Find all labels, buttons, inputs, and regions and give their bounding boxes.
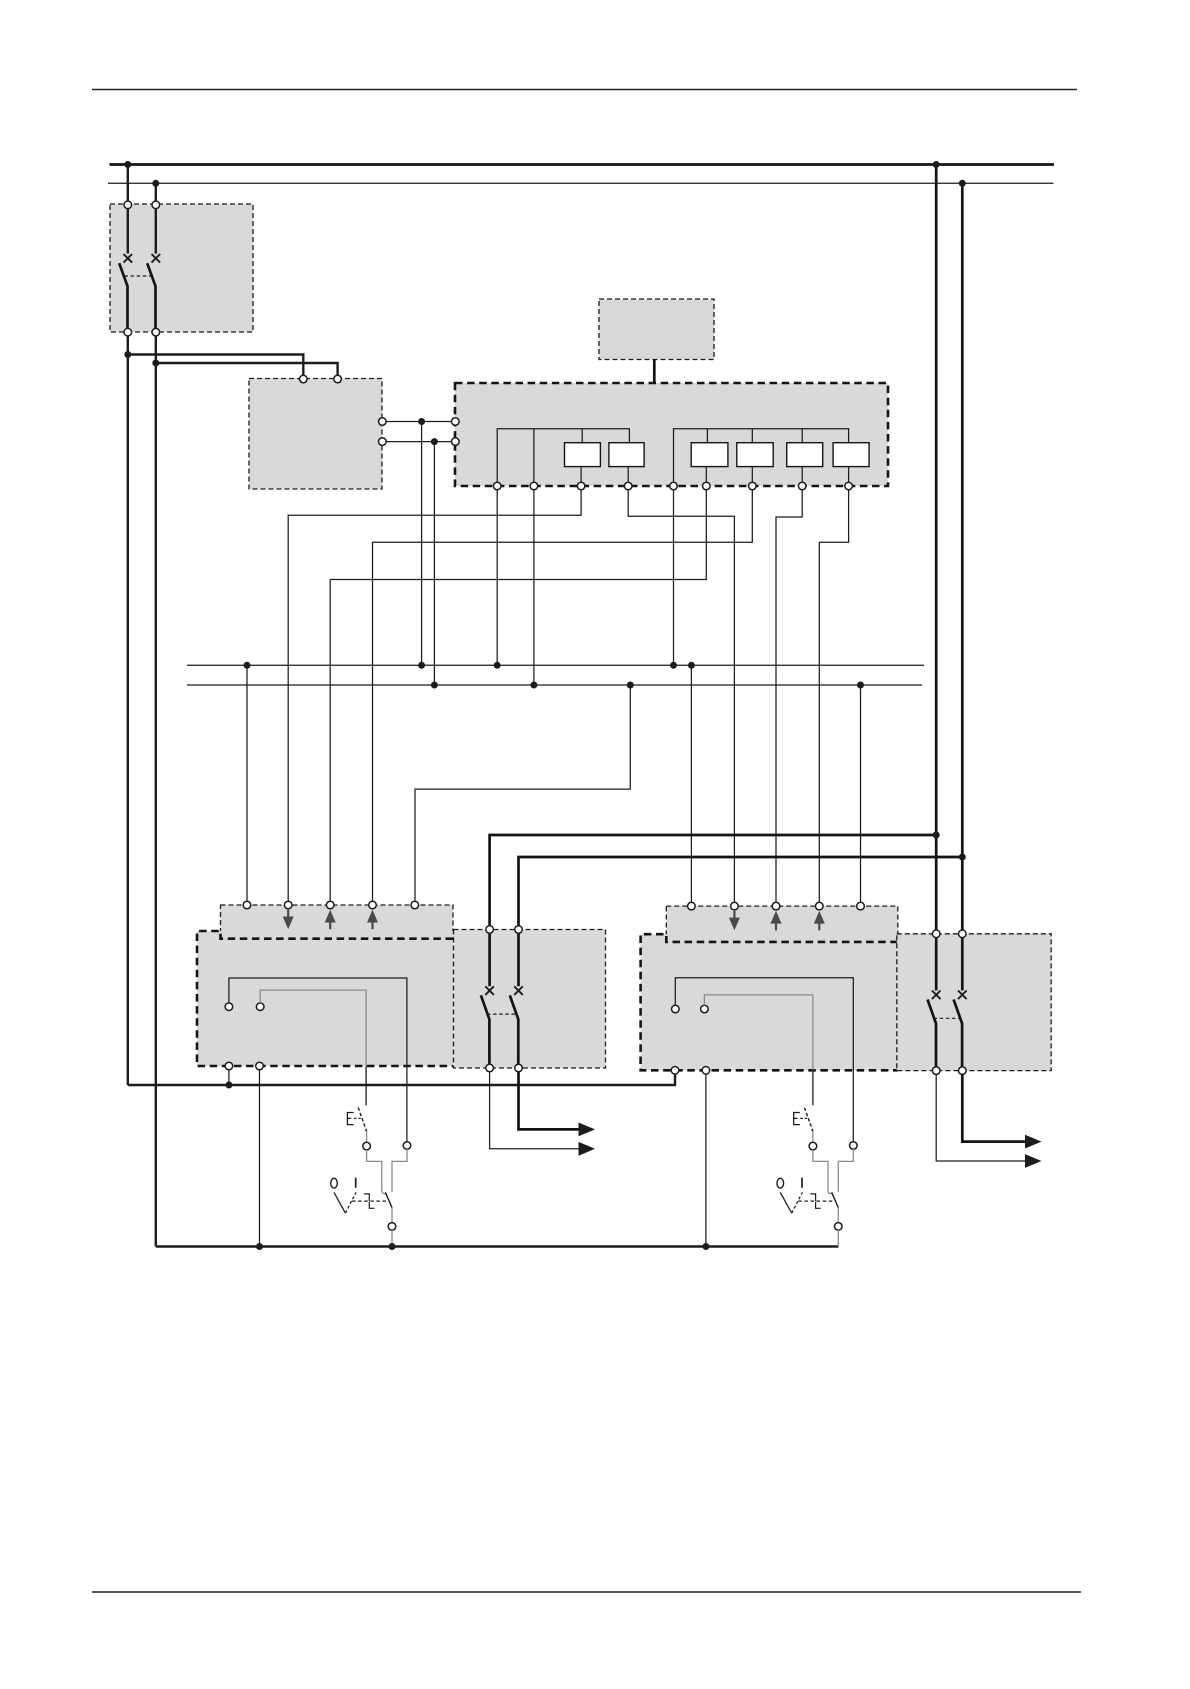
A1 output terminal 7: [749, 482, 757, 490]
junction on L1: [124, 161, 131, 168]
wire 0V bottom rail: [156, 1245, 839, 1247]
controller A1 enclosure border: [455, 383, 888, 486]
junction on return line: [225, 1082, 232, 1089]
wire 24V control bus: [187, 664, 924, 666]
A1 output terminal 5: [670, 482, 678, 490]
junction A2 on 0V rail: [256, 1243, 263, 1250]
wire Q2 pole2 to motor output: [519, 1072, 580, 1130]
emergency stop S1: [347, 1108, 366, 1143]
Q2 pole 2 bottom terminal: [515, 1064, 523, 1072]
drive unit A3 enclosure border: [641, 934, 898, 1070]
junction plus drop on 24V bus: [418, 662, 425, 669]
motor output arrow 1 left: [579, 1123, 596, 1137]
junction X2.1 on 24V bus: [688, 662, 695, 669]
wire L1 supply bus: [110, 163, 1055, 166]
X2 terminal 2: [731, 902, 739, 910]
wire T1 plus to controller A1: [386, 421, 452, 423]
Q1 pole 2 top terminal: [152, 201, 160, 209]
display H1 enclosure: [599, 299, 714, 360]
A1 output terminal 1: [493, 482, 501, 490]
junction plus branch: [418, 418, 425, 425]
junction X2.5 on 0V bus: [857, 682, 864, 689]
X2 terminal 1: [688, 902, 696, 910]
A1 input terminal plus: [452, 418, 460, 426]
wire K1 output: [580, 467, 582, 483]
relay K4: [737, 443, 773, 467]
X2 up arrow 2: [814, 911, 825, 930]
T1 output terminal minus: [379, 438, 387, 446]
power supply T1 enclosure: [249, 379, 382, 490]
Q1 pole 1 top terminal: [124, 201, 132, 209]
wire A1 out4 to strip X2.2: [628, 490, 734, 903]
A3 bottom terminal 2: [702, 1067, 710, 1075]
Q3 pole 1 contact: [928, 937, 941, 1066]
drive unit A2 enclosure border: [197, 931, 453, 1066]
junction X1.1 on 24V bus: [244, 662, 251, 669]
A1 output terminal 4: [624, 482, 632, 490]
A1 internal bus right: [674, 429, 849, 483]
Q2 pole 1 bottom terminal: [486, 1064, 494, 1072]
X2 down arrow: [729, 911, 740, 930]
Q1 pole 2 contact: [147, 208, 160, 328]
X1 down arrow: [283, 910, 294, 929]
X2 terminal 4: [816, 902, 824, 910]
T1 input terminal 1: [300, 375, 308, 383]
A1 internal bus left: [497, 429, 629, 483]
junction pole2 branch: [152, 360, 159, 367]
X1 terminal 5: [411, 901, 419, 909]
A3 bottom terminal 1: [671, 1067, 679, 1075]
wire A1 out3 to strip X1.2: [288, 490, 581, 902]
wire N supply bus: [108, 182, 1054, 184]
wire pole2 branch to power supply T1: [156, 363, 338, 376]
Q1 pole 2 bottom terminal: [152, 328, 160, 336]
wire L1 rail to contactor Q3: [935, 165, 938, 931]
wire N rail to contactor Q3: [961, 183, 964, 930]
Q2 pole 2 top terminal: [515, 926, 523, 934]
wire A2 bottom1 to return line: [228, 1070, 230, 1085]
Q2 pole 1 top terminal: [486, 926, 494, 934]
controller A1 enclosure fill: [455, 383, 888, 486]
footer rule: [92, 1591, 1081, 1593]
S4 output terminal: [835, 1223, 843, 1231]
wire A2 coil1 to S1 bypass contact: [229, 978, 407, 1142]
wire K4 output: [751, 467, 753, 483]
circuit breaker Q1 enclosure: [110, 204, 253, 332]
junction A3 on 0V rail: [702, 1243, 709, 1250]
Q1 mechanical linkage: [125, 275, 153, 277]
X2 terminal 3: [772, 902, 780, 910]
junction out1 on 24V bus: [494, 662, 501, 669]
Q3 pole 2 contact: [954, 937, 967, 1066]
wire A3 coil2 to emergency stop S3: [704, 995, 813, 1070]
drive unit A3 enclosure fill: [641, 934, 898, 1070]
A1 output terminal 8: [798, 482, 806, 490]
A1 output terminal 6: [703, 482, 711, 490]
wire K3 output: [705, 467, 707, 483]
wire S1 left to selector S2: [367, 1150, 386, 1194]
relay K6: [833, 443, 869, 467]
Q1 pole 1 contact: [119, 208, 132, 328]
A2 coil terminal 1: [225, 1003, 233, 1011]
wire 0V bus to strip X2.5: [860, 685, 862, 902]
A3 coil terminal 1: [672, 1005, 680, 1013]
junction minus drop on 0V bus: [431, 682, 438, 689]
Q3 pole 1 top terminal: [932, 930, 940, 938]
Q1 pole 1 bottom terminal: [124, 328, 132, 336]
motor output arrow 2 left: [579, 1142, 596, 1156]
wire S1 right to selector S2: [392, 1149, 407, 1192]
wire A2 coil2 to emergency stop S1: [260, 990, 366, 1066]
X1 terminal 4: [369, 901, 377, 909]
wire S3 right to selector S4: [838, 1149, 853, 1192]
wire return line left side: [128, 1074, 675, 1085]
X1 up arrow 1: [325, 910, 336, 929]
wire feed to contactor Q2 pole 2: [519, 857, 963, 926]
wire 0V control bus: [187, 684, 922, 686]
S3 contact terminal left: [809, 1142, 817, 1150]
A3 coil terminal 2: [701, 1005, 709, 1013]
terminal strip X2 enclosure: [666, 906, 898, 941]
wire L1 to Q1 pole 1: [127, 165, 129, 202]
wire A1 out7 to strip X1.4: [373, 490, 753, 902]
wire S2 to 0V rail: [391, 1230, 393, 1247]
wire Q3 pole1 to motor output: [936, 1074, 1025, 1161]
header rule: [92, 89, 1077, 91]
motor output arrow 1 right: [1025, 1135, 1042, 1149]
wire K5 output: [801, 467, 803, 483]
Q2 pole 2 contact: [510, 933, 523, 1064]
wire Q3 pole2 to motor output: [962, 1074, 1025, 1141]
Q3 mechanical linkage: [934, 1017, 960, 1019]
wire Q1 pole1 feeder down left side: [127, 336, 129, 1085]
wire A3 coil1 to S3 bypass contact: [675, 978, 853, 1142]
junction out5 on 24V bus: [670, 662, 677, 669]
wire Q2 pole1 to motor output: [490, 1072, 579, 1149]
wire A1 out8 to strip X2.3: [776, 490, 802, 903]
S1 contact terminal right: [403, 1142, 411, 1150]
relay K1: [565, 443, 601, 467]
S3 contact terminal right: [850, 1142, 858, 1150]
wire A1 out1 to 24V bus: [496, 490, 498, 666]
Q2 mechanical linkage: [487, 1013, 516, 1015]
wire plus branch down to 24V bus: [421, 422, 423, 666]
Q3 pole 2 bottom terminal: [959, 1067, 967, 1075]
wire 24V bus to strip X1.1: [246, 665, 248, 901]
wire Q1 pole2 feeder down left side: [155, 336, 157, 1247]
Q2 pole 1 contact: [481, 933, 494, 1064]
wire K2 output: [627, 467, 629, 483]
relay K5: [787, 443, 823, 467]
T1 input terminal 2: [334, 375, 342, 383]
junction feed Q2 pole 1: [933, 832, 940, 839]
X1 terminal 3: [326, 901, 334, 909]
selector switch S4: [777, 1178, 838, 1223]
wire minus branch down to 0V bus: [433, 442, 435, 685]
X2 up arrow 1: [771, 911, 782, 930]
wire A3 bottom2 to 0V rail: [705, 1074, 707, 1247]
junction N rail: [959, 180, 966, 187]
A1 output terminal 2: [530, 482, 538, 490]
A1 input terminal minus: [452, 438, 460, 446]
wire A2 bottom2 to 0V rail: [259, 1070, 261, 1247]
X1 up arrow 2: [367, 910, 378, 929]
S1 contact terminal left: [363, 1142, 371, 1150]
contactor Q2 enclosure: [454, 930, 606, 1069]
contactor Q3 enclosure: [897, 934, 1051, 1071]
junction minus branch: [431, 438, 438, 445]
relay K3: [691, 443, 728, 467]
wire S3 left to selector S4: [813, 1150, 832, 1194]
wire T1 minus to controller A1: [386, 441, 452, 443]
A1 output terminal 3: [577, 482, 585, 490]
Q3 pole 1 bottom terminal: [932, 1067, 940, 1075]
wire A1 out2 to 0V bus: [533, 490, 535, 685]
A1 output terminal 9: [845, 482, 853, 490]
T1 output terminal plus: [379, 418, 387, 426]
wire 0V bus to strip X1.5: [415, 685, 630, 901]
Q3 pole 2 top terminal: [959, 930, 967, 938]
wire A1 out9 to strip X2.4: [819, 490, 848, 903]
wire feed to contactor Q2 pole 1: [490, 835, 937, 926]
junction X1.5 on 0V bus: [627, 682, 634, 689]
A2 bottom terminal 2: [256, 1062, 264, 1070]
A2 coil terminal 2: [256, 1003, 264, 1011]
junction L1 rail: [933, 161, 940, 168]
wire A1 out5 to 24V bus: [673, 490, 675, 666]
emergency stop S3: [794, 1108, 813, 1143]
junction feed Q2 pole 2: [959, 854, 966, 861]
relay K2: [609, 443, 644, 467]
wire N to Q1 pole 2: [155, 183, 157, 201]
X1 terminal 2: [284, 901, 292, 909]
selector switch S2: [331, 1178, 392, 1223]
junction on N: [152, 180, 159, 187]
wire 24V bus to strip X2.1: [690, 665, 692, 902]
X1 terminal 1: [243, 901, 251, 909]
terminal strip X1 enclosure: [221, 905, 454, 939]
junction S2 on 0V rail: [389, 1243, 396, 1250]
drive unit A2 enclosure fill: [197, 931, 453, 1066]
junction pole1 branch: [124, 351, 131, 358]
wire A1 out6 to strip X1.3: [330, 490, 706, 902]
A2 bottom terminal 1: [225, 1062, 233, 1070]
motor output arrow 2 right: [1025, 1154, 1042, 1168]
wire H1 to controller A1: [653, 360, 656, 384]
wire pole1 branch to power supply T1: [128, 355, 303, 376]
wire S4 to 0V rail: [837, 1230, 839, 1247]
S2 output terminal: [388, 1223, 396, 1231]
junction out2 on 0V bus: [530, 682, 537, 689]
wire K6 output: [848, 467, 850, 483]
X2 terminal 5: [857, 902, 865, 910]
